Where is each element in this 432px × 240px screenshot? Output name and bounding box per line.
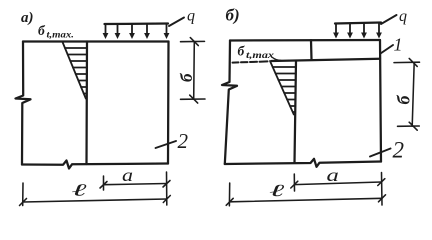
dimension label l (fig b) — [269, 181, 284, 199]
inner vertical joint line (fig a) — [85, 42, 88, 165]
wall right edge (fig a) — [167, 42, 170, 164]
stress triangle hatching (fig a) — [65, 48, 87, 94]
part label 1 (fig b) — [394, 35, 403, 55]
leader line to 1 (fig b) — [381, 45, 394, 54]
inner vertical joint line (fig b) — [295, 61, 297, 163]
dimension l line (fig a) — [23, 199, 167, 202]
belt joint divider (fig b) — [310, 40, 313, 59]
stress triangle hatching (fig b) — [273, 67, 296, 112]
dimension в line (fig a) — [193, 42, 196, 100]
tick right (fig b a) — [378, 179, 385, 186]
dimension label l (fig a) — [71, 181, 86, 199]
svg-text:б: б — [393, 95, 413, 105]
wall right edge (fig b) — [380, 40, 381, 162]
tick left (fig b l) — [226, 198, 233, 205]
load arrows (fig a) — [106, 24, 167, 35]
load label q (fig a) — [187, 8, 195, 25]
leader line to q (fig a) — [169, 18, 184, 27]
stress triangle slant edge (fig a) — [63, 42, 86, 99]
wall top edge (fig b) — [230, 39, 380, 42]
tick left (fig a a) — [100, 182, 107, 189]
tick left (fig a l) — [20, 199, 27, 206]
part label 2 (fig a) — [178, 129, 189, 153]
figure label б) — [226, 6, 240, 25]
svg-text:t,max.: t,max. — [47, 30, 75, 40]
svg-text:ℓ: ℓ — [71, 181, 86, 199]
dimension a (fig a): extension lines — [100, 172, 170, 205]
load label q (fig b) — [399, 8, 407, 25]
dashed stress top line (fig b) — [233, 61, 268, 62]
stress triangle slant edge (fig b) — [270, 61, 294, 115]
svg-text:2: 2 — [393, 138, 405, 163]
svg-text:б): б) — [226, 6, 240, 25]
belt bottom line (fig b) — [272, 59, 381, 61]
load arrows (fig b) — [336, 23, 379, 34]
swash tail from max label to belt line (fig b) — [273, 58, 282, 61]
svg-text:t,max: t,max — [246, 50, 275, 60]
dimension a (fig b): extension lines — [291, 173, 385, 206]
dimension в (fig a): extension bars — [181, 38, 206, 104]
wall bottom edge with break (fig b) — [225, 159, 381, 167]
svg-text:a: a — [327, 165, 339, 185]
part label 2 (fig b) — [393, 138, 405, 163]
svg-text:ℓ: ℓ — [269, 181, 284, 199]
figure label а) — [21, 10, 34, 26]
tick right (fig b l) — [379, 195, 386, 202]
stress label σt,max (fig b) — [238, 44, 275, 61]
svg-text:q: q — [187, 8, 195, 25]
tick right (fig a a) — [163, 181, 170, 188]
tick left (fig b a) — [291, 181, 298, 188]
dimension label в (fig b) — [393, 95, 413, 105]
tick top (fig a в) — [190, 38, 198, 46]
svg-text:2: 2 — [178, 129, 189, 153]
tick bottom (fig a в) — [190, 95, 198, 103]
dimension l (fig b): extension line — [226, 183, 385, 206]
svg-text:q: q — [399, 8, 407, 25]
svg-text:1: 1 — [394, 35, 403, 55]
dimension a line (fig a) — [104, 184, 167, 185]
stress label σt,max (fig a) — [38, 23, 74, 40]
svg-text:а): а) — [21, 10, 34, 26]
dimension l (fig a): extension line — [20, 183, 171, 206]
wall left edge with break (fig b) — [222, 41, 237, 165]
dimension label a (fig a) — [122, 165, 133, 185]
wall top edge (fig a) — [23, 40, 169, 42]
tick top (fig b в) — [409, 58, 417, 66]
distributed load q top line (fig a) — [105, 22, 169, 25]
leader line to 2 (fig a) — [156, 141, 177, 148]
tick bottom (fig b в) — [409, 122, 417, 130]
leader line to 2 (fig b) — [370, 149, 391, 157]
dimension label в (fig a) — [177, 72, 196, 82]
dimension в line (fig b) — [412, 62, 414, 126]
svg-text:a: a — [122, 165, 133, 185]
dimension label a (fig b) — [327, 165, 339, 185]
wall bottom edge with break (fig a) — [22, 161, 168, 169]
dimension l line (fig b) — [230, 198, 382, 202]
tick right (fig a l) — [163, 196, 170, 203]
wall left edge with break (fig a) — [16, 42, 31, 165]
leader line to q (fig b) — [381, 15, 397, 24]
dimension в (fig b): extension bars — [394, 58, 420, 130]
dimension a line (fig b) — [294, 182, 381, 185]
distributed load q top line (fig b) — [335, 23, 381, 24]
